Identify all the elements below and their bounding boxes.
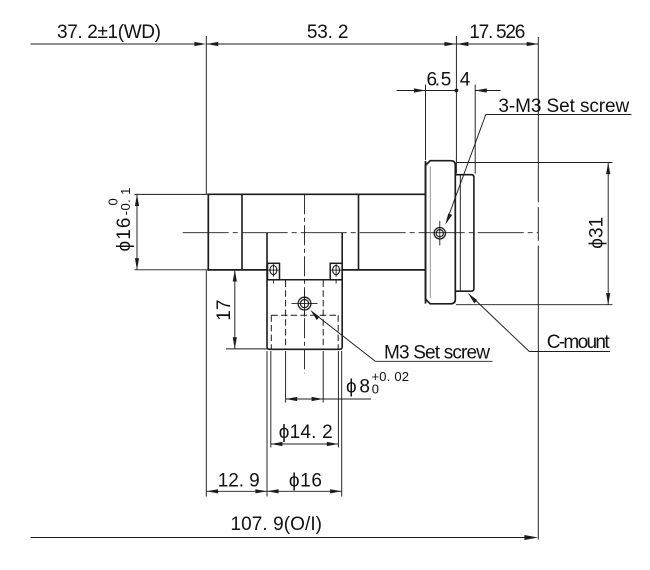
dim 4 line: [475, 90, 500, 92]
dim 17: [226, 348, 267, 350]
svg-text:12. 9: 12. 9: [218, 470, 260, 491]
svg-text:17. 526: 17. 526: [469, 22, 525, 43]
junction dot 6.5/4: [455, 89, 459, 93]
svg-text:ϕ16: ϕ16: [289, 470, 322, 491]
svg-text:17: 17: [214, 300, 235, 321]
hidden pocket phi14.2 dashed: [271, 315, 338, 349]
set screw box right: [330, 263, 342, 280]
svg-text:4: 4: [460, 70, 471, 91]
hidden bore phi8 dashed: [286, 281, 324, 350]
extension line mount face: [455, 36, 457, 174]
svg-text:37. 2±1(WD): 37. 2±1(WD): [57, 22, 161, 43]
leader C-mount: [473, 298, 529, 352]
flange front face edge: [425, 161, 427, 304]
image plane line: [537, 37, 539, 202]
svg-text:ϕ31: ϕ31: [587, 217, 608, 249]
M3 set screw on block (front view): [292, 291, 318, 317]
dim 17.526 line: [457, 43, 539, 45]
block top face line: [267, 279, 342, 281]
svg-text:ϕ14. 2: ϕ14. 2: [279, 422, 333, 443]
flange chamfer tangent line: [429, 167, 431, 299]
centerline horizontal (optical axis): [183, 232, 539, 234]
dim 12.9 and phi16 bottom: [266, 351, 268, 497]
svg-text:0: 0: [106, 198, 121, 205]
C-mount thread ring: [456, 175, 474, 292]
dim 37.2 WD line: [31, 43, 197, 45]
svg-text:107. 9(O/I): 107. 9(O/I): [231, 514, 323, 535]
dim 6.5 line: [397, 90, 426, 92]
dim 107.9 O/I: [31, 537, 529, 539]
set screw right symbol: [330, 264, 341, 284]
dim 53.2 line: [207, 43, 456, 45]
extension line ring rear: [474, 85, 476, 174]
dim phi8: [285, 351, 287, 403]
set screw box left: [268, 263, 280, 280]
svg-text:0: 0: [372, 382, 379, 397]
ring inner edge line: [459, 175, 461, 292]
main barrel outline: [208, 194, 425, 271]
svg-text:53. 2: 53. 2: [307, 22, 349, 43]
dim phi31: [457, 162, 613, 164]
text phi31 rotated: [587, 217, 608, 249]
lower mounting block: [267, 233, 342, 350]
leader M3 set screw: [316, 315, 375, 361]
dim phi14.2: [270, 351, 272, 448]
text 17 rotated: [214, 300, 235, 321]
barrel section joint B: [358, 194, 360, 270]
dim phi16 left: [135, 193, 209, 195]
C-mount flange phi31: [426, 161, 456, 304]
centerline vertical (lower block axis): [304, 194, 306, 373]
leader 3-M3 set screw: [448, 115, 486, 218]
text phi16 tolerance left rotated: [106, 188, 136, 252]
extension line front face: [205, 36, 207, 194]
svg-text:ϕ16: ϕ16: [114, 218, 135, 252]
set screw left symbol: [268, 264, 279, 284]
barrel section joint A: [241, 194, 243, 270]
svg-text:6. 5: 6. 5: [427, 70, 452, 91]
svg-text:3-M3 Set screw: 3-M3 Set screw: [498, 96, 629, 117]
svg-text:C-mount: C-mount: [547, 332, 611, 353]
extension line flange front: [425, 85, 427, 161]
svg-text:M3 Set screw: M3 Set screw: [384, 343, 490, 364]
M3 set screw on flange (side view): [434, 221, 445, 246]
